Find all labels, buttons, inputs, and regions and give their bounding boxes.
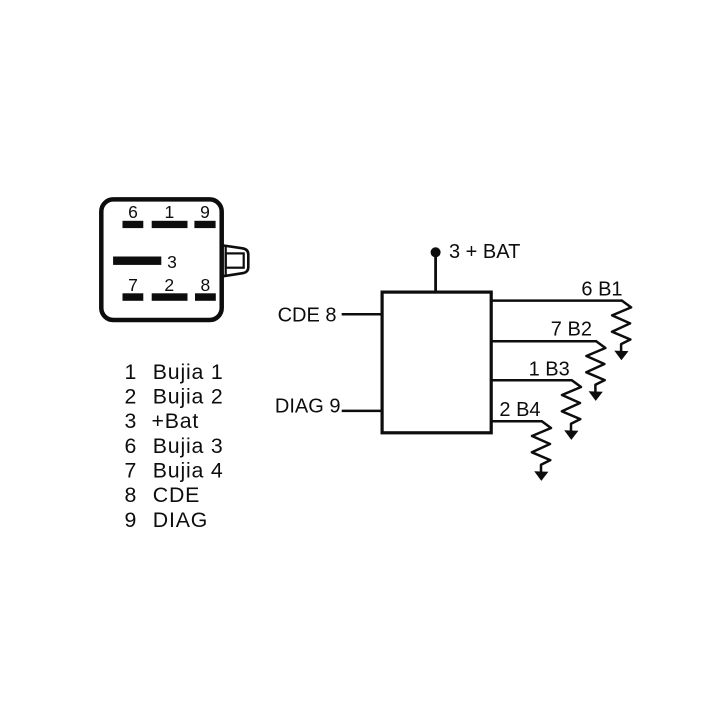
legend line: 6 Bujia 3 [125, 434, 224, 458]
legend line: 9 DIAG [125, 508, 209, 532]
legend line: 3 +Bat [125, 409, 200, 433]
wire B3 [491, 379, 572, 382]
wire B4 [491, 420, 542, 423]
glow plug element B4 (zigzag + arrowhead) [532, 421, 551, 481]
svg-text:9: 9 [200, 202, 210, 222]
svg-text:Bujia 3: Bujia 3 [153, 434, 224, 458]
wire CDE 8 to box [342, 313, 382, 316]
glow plug element B2 (zigzag + arrowhead) [586, 341, 605, 401]
node 3 +BAT dot [431, 247, 441, 257]
wire B2 [491, 340, 596, 343]
control unit box U1 [382, 292, 491, 433]
svg-text:6: 6 [125, 434, 138, 458]
pin 1 [152, 221, 188, 228]
wire: +BAT dot to box top [434, 252, 437, 290]
svg-text:1: 1 [125, 360, 138, 384]
pin 2 [152, 293, 188, 301]
svg-text:Bujia 2: Bujia 2 [153, 385, 224, 409]
pin 3 [113, 257, 161, 265]
legend line: 1 Bujia 1 [125, 360, 224, 384]
svg-text:CDE: CDE [153, 483, 200, 507]
svg-text:Bujia 4: Bujia 4 [153, 459, 224, 483]
svg-text:6 B1: 6 B1 [581, 278, 622, 300]
svg-text:6: 6 [128, 202, 138, 222]
wire DIAG 9 to box [342, 410, 382, 413]
legend line: 8 CDE [125, 483, 201, 507]
svg-text:DIAG 9: DIAG 9 [275, 395, 341, 417]
pin 6 [123, 221, 144, 228]
svg-text:3 + BAT: 3 + BAT [449, 241, 520, 263]
svg-text:2: 2 [125, 385, 138, 409]
svg-text:7: 7 [125, 459, 138, 483]
connector latch tab [224, 246, 249, 277]
svg-text:1: 1 [165, 202, 175, 222]
svg-text:DIAG: DIAG [153, 508, 208, 532]
svg-text:2 B4: 2 B4 [499, 399, 540, 421]
svg-text:7: 7 [128, 275, 138, 295]
svg-text:8: 8 [125, 483, 138, 507]
pin 8 [195, 293, 216, 301]
pin 7 [123, 293, 144, 301]
svg-text:2: 2 [164, 275, 174, 295]
svg-text:1 B3: 1 B3 [529, 358, 570, 380]
legend line: 7 Bujia 4 [125, 459, 224, 483]
svg-text:8: 8 [201, 275, 211, 295]
svg-text:9: 9 [125, 508, 138, 532]
svg-text:+Bat: +Bat [152, 409, 200, 433]
svg-text:3: 3 [125, 409, 138, 433]
svg-text:CDE 8: CDE 8 [278, 305, 337, 327]
wire B1 [491, 299, 622, 302]
glow plug element B1 (zigzag + arrowhead) [612, 301, 631, 361]
svg-text:3: 3 [167, 252, 177, 272]
connector J1 outline [101, 199, 221, 320]
pin 9 [194, 221, 215, 228]
legend line: 2 Bujia 2 [125, 385, 224, 409]
svg-text:7 B2: 7 B2 [551, 319, 592, 341]
svg-text:Bujia 1: Bujia 1 [153, 360, 224, 384]
glow plug element B3 (zigzag + arrowhead) [562, 380, 581, 440]
